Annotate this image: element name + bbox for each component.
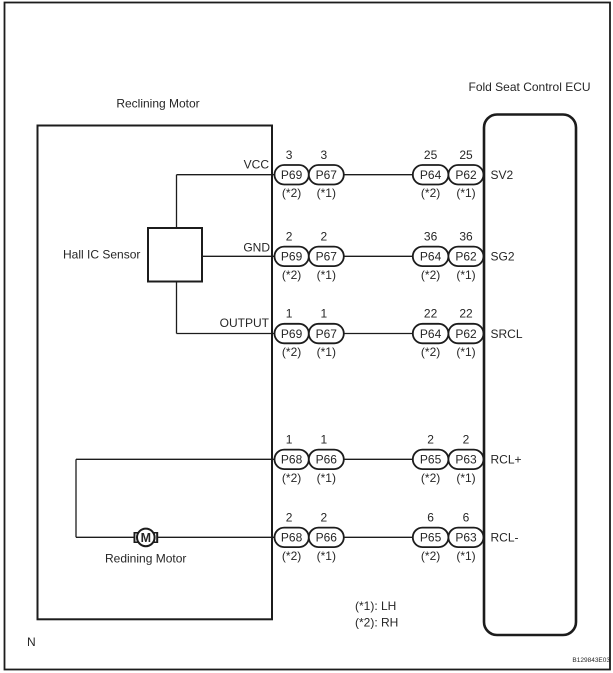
svg-text:P66: P66 — [316, 453, 338, 467]
motor M (redining motor) brush left — [134, 532, 139, 543]
svg-text:RCL-: RCL- — [491, 531, 519, 545]
svg-text:P68: P68 — [281, 453, 303, 467]
connector P69 pin 1 (OUTPUT row) — [275, 324, 309, 344]
svg-text:SRCL: SRCL — [491, 327, 523, 341]
svg-text:Hall IC Sensor: Hall IC Sensor — [63, 248, 140, 262]
svg-text:VCC: VCC — [244, 158, 270, 172]
svg-text:(*2): (*2) — [282, 471, 301, 485]
connector P64 pin 25 (SV2 row) — [413, 165, 449, 185]
svg-text:(*1): (*1) — [317, 268, 336, 282]
svg-text:(*2): (*2) — [421, 471, 440, 485]
svg-text:(*2): (*2) — [421, 268, 440, 282]
svg-text:(*1): (*1) — [456, 549, 475, 563]
svg-text:P69: P69 — [281, 327, 303, 341]
connector P62 pin 25 (SV2 row) — [448, 165, 483, 185]
wire RCL+ row inside motor box — [76, 458, 276, 460]
svg-text:(*1): (*1) — [317, 549, 336, 563]
svg-text:B129843E03: B129843E03 — [572, 657, 610, 664]
svg-text:(*1): (*1) — [456, 471, 475, 485]
svg-text:(*1): (*1) — [317, 186, 336, 200]
svg-text:N: N — [27, 635, 36, 649]
svg-text:P63: P63 — [455, 531, 477, 545]
svg-text:(*1): (*1) — [456, 186, 475, 200]
svg-text:P69: P69 — [281, 250, 303, 264]
connector P63 pin 6 (RCL- row) — [448, 528, 483, 548]
svg-text:P66: P66 — [316, 531, 338, 545]
motor M (redining motor) circle — [137, 529, 155, 547]
wire RCL- row from vertical to motor — [76, 536, 134, 538]
svg-text:M: M — [141, 531, 151, 545]
svg-text:P62: P62 — [455, 250, 477, 264]
connector P68 pin 1 (RCL+ row) — [275, 450, 309, 470]
svg-text:25: 25 — [424, 148, 438, 162]
svg-text:P64: P64 — [420, 168, 442, 182]
svg-text:P64: P64 — [420, 250, 442, 264]
svg-text:(*1): (*1) — [317, 471, 336, 485]
svg-text:P67: P67 — [316, 250, 338, 264]
svg-text:1: 1 — [286, 432, 293, 446]
svg-text:P69: P69 — [281, 168, 303, 182]
wire RCL- row from motor to motor box edge — [158, 536, 276, 538]
connector P66 pin 1 (RCL+ row) — [309, 450, 344, 470]
svg-text:6: 6 — [463, 510, 470, 524]
svg-text:Reclining Motor: Reclining Motor — [116, 97, 199, 111]
svg-text:36: 36 — [424, 229, 438, 243]
wire OUTPUT horizontal to motor box edge — [177, 333, 277, 335]
connector P68 pin 2 (RCL- row) — [275, 528, 309, 548]
connector P62 pin 36 (SG2 row) — [448, 247, 483, 267]
svg-text:1: 1 — [320, 432, 327, 446]
svg-text:(*2): (*2) — [421, 186, 440, 200]
connector P64 pin 22 (SRCL row) — [413, 324, 449, 344]
svg-text:2: 2 — [320, 229, 327, 243]
svg-text:Fold Seat Control ECU: Fold Seat Control ECU — [469, 80, 591, 94]
connector P63 pin 2 (RCL+ row) — [448, 450, 483, 470]
svg-text:6: 6 — [427, 510, 434, 524]
wire RCL+ row between connector pairs — [344, 458, 413, 460]
svg-text:(*1): (*1) — [317, 345, 336, 359]
svg-text:SV2: SV2 — [491, 168, 514, 182]
svg-text:P65: P65 — [420, 531, 442, 545]
svg-text:OUTPUT: OUTPUT — [220, 316, 270, 330]
wire vertical connecting RCL+ and RCL- rows — [75, 459, 77, 537]
motor M (redining motor) brush right — [153, 532, 158, 543]
wire RCL- row between connector pairs — [344, 536, 413, 538]
connector P65 pin 6 (RCL- row) — [413, 528, 449, 548]
wire OUTPUT vertical from hall sensor bottom — [176, 282, 178, 334]
wire VCC row between connector pairs — [344, 174, 413, 176]
connector P64 pin 36 (SG2 row) — [413, 247, 449, 267]
svg-text:22: 22 — [424, 307, 438, 321]
svg-text:(*2): (*2) — [421, 345, 440, 359]
svg-text:2: 2 — [286, 510, 293, 524]
svg-text:2: 2 — [320, 510, 327, 524]
svg-text:(*2): (*2) — [421, 549, 440, 563]
svg-text:25: 25 — [459, 148, 473, 162]
svg-text:P67: P67 — [316, 327, 338, 341]
svg-text:2: 2 — [463, 432, 470, 446]
connector P67 pin 3 (VCC row) — [309, 165, 344, 185]
svg-text:(*2): (*2) — [282, 268, 301, 282]
svg-text:36: 36 — [459, 229, 473, 243]
svg-text:(*2): (*2) — [282, 186, 301, 200]
svg-text:1: 1 — [320, 307, 327, 321]
connector P69 pin 2 (GND row) — [275, 247, 309, 267]
svg-text:P62: P62 — [455, 168, 477, 182]
svg-text:P68: P68 — [281, 531, 303, 545]
svg-text:(*2): (*2) — [282, 549, 301, 563]
svg-text:3: 3 — [320, 148, 327, 162]
svg-text:P67: P67 — [316, 168, 338, 182]
connector P67 pin 2 (GND row) — [309, 247, 344, 267]
svg-text:Redining Motor: Redining Motor — [105, 552, 186, 566]
svg-text:2: 2 — [427, 432, 434, 446]
svg-text:RCL+: RCL+ — [491, 453, 522, 467]
reclining motor assembly box — [38, 126, 273, 620]
connector P67 pin 1 (OUTPUT row) — [309, 324, 344, 344]
svg-text:(*1): LH: (*1): LH — [355, 599, 396, 613]
hall IC sensor box — [148, 228, 202, 282]
svg-text:(*2): RH: (*2): RH — [355, 616, 398, 630]
connector P69 pin 3 (VCC row) — [275, 165, 309, 185]
svg-text:SG2: SG2 — [491, 250, 515, 264]
connector P65 pin 2 (RCL+ row) — [413, 450, 449, 470]
svg-text:(*1): (*1) — [456, 345, 475, 359]
svg-text:22: 22 — [459, 307, 473, 321]
wire GND from hall sensor right to motor box edge — [202, 255, 276, 257]
wire VCC vertical down to hall sensor top — [176, 175, 178, 228]
Fold Seat Control ECU box — [484, 115, 576, 636]
svg-text:P65: P65 — [420, 453, 442, 467]
svg-text:P62: P62 — [455, 327, 477, 341]
wire VCC from hall sensor vertical to motor box edge — [177, 174, 277, 176]
wire GND row between connector pairs — [344, 255, 413, 257]
connector P66 pin 2 (RCL- row) — [309, 528, 344, 548]
svg-text:1: 1 — [286, 307, 293, 321]
svg-text:(*2): (*2) — [282, 345, 301, 359]
svg-text:3: 3 — [286, 148, 293, 162]
svg-text:(*1): (*1) — [456, 268, 475, 282]
svg-text:GND: GND — [243, 241, 270, 255]
wire OUTPUT row between connector pairs — [344, 333, 413, 335]
connector P62 pin 22 (SRCL row) — [448, 324, 483, 344]
svg-text:P63: P63 — [455, 453, 477, 467]
svg-text:P64: P64 — [420, 327, 442, 341]
svg-text:2: 2 — [286, 229, 293, 243]
